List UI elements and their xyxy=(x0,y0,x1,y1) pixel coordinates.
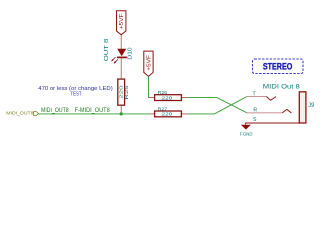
svg-text:OUT 8: OUT 8 xyxy=(104,38,110,61)
resistor R26 xyxy=(150,90,188,100)
wire S to FGND xyxy=(244,123,246,125)
power symbol FGND xyxy=(240,125,253,138)
svg-text:MIDI_OUT8: MIDI_OUT8 xyxy=(6,111,34,117)
jack J9 barrel xyxy=(299,92,306,123)
svg-text:F-MIDI_OUT8: F-MIDI_OUT8 xyxy=(75,107,111,114)
svg-text:+5VF: +5VF xyxy=(146,54,152,71)
junction xyxy=(120,112,123,115)
svg-text:D10: D10 xyxy=(128,47,134,59)
svg-text:MIDI_OUT8: MIDI_OUT8 xyxy=(41,107,69,114)
svg-text:220: 220 xyxy=(162,112,173,117)
svg-text:R27: R27 xyxy=(158,106,168,111)
svg-text:220: 220 xyxy=(119,85,124,99)
resistor R25 xyxy=(118,79,129,105)
power flag +5VF PWR1 xyxy=(117,11,126,35)
LED D10 xyxy=(104,38,134,63)
wire R27 to jack T pin xyxy=(188,97,247,114)
svg-text:FGND: FGND xyxy=(240,131,253,137)
wire LED cathode to R25 xyxy=(120,58,122,79)
jack J9 pin S and sleeve xyxy=(245,117,306,123)
wire +5VF2 to R26 xyxy=(149,77,151,98)
wire main horizontal xyxy=(39,113,151,115)
jack J9 pin R xyxy=(247,108,291,114)
power flag +5VF PWR2 xyxy=(144,51,153,76)
svg-text:220: 220 xyxy=(162,96,173,101)
hierarchical label MIDI_OUT8 xyxy=(6,111,38,117)
svg-text:+5VF: +5VF xyxy=(119,13,125,30)
svg-text:R25: R25 xyxy=(124,85,129,100)
jack J9 pin T xyxy=(247,91,276,100)
wire +5VF to LED anode xyxy=(120,35,122,49)
svg-text:STEREO: STEREO xyxy=(263,62,292,73)
svg-text:S: S xyxy=(253,117,257,123)
wire R25 to junction xyxy=(120,105,122,114)
svg-text:R26: R26 xyxy=(158,90,168,95)
svg-text:J9: J9 xyxy=(308,103,315,109)
svg-text:R: R xyxy=(253,108,257,114)
svg-text:TEST: TEST xyxy=(71,91,82,97)
resistor R27 xyxy=(150,106,188,116)
STEREO note box xyxy=(253,59,304,74)
svg-text:MIDI Out 8: MIDI Out 8 xyxy=(263,83,301,90)
wire R26 to jack R pin xyxy=(188,98,247,113)
